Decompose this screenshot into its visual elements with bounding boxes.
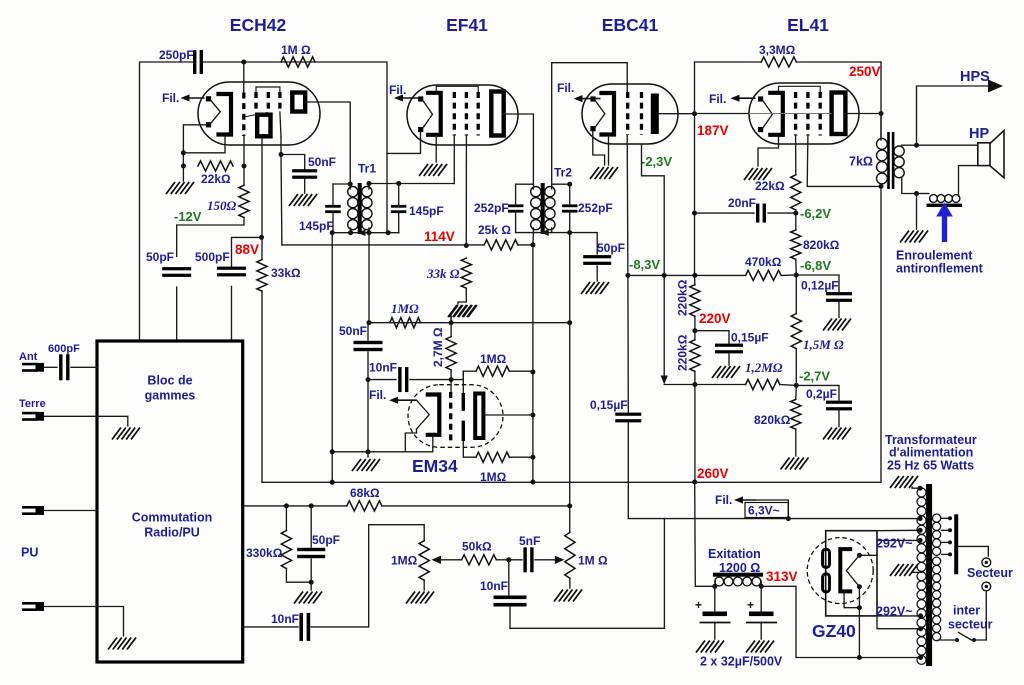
- wire EF41 g1 to Tr1: [453, 136, 455, 184]
- svg-text:50kΩ: 50kΩ: [462, 540, 492, 554]
- resistor 22k EL41: [791, 175, 801, 210]
- resistor 33k EF41: [461, 258, 471, 288]
- grid3 ECH42: [267, 92, 270, 112]
- capacitor 252pF right: [562, 204, 578, 207]
- choke bar: [713, 573, 763, 577]
- wire 313V to GZ40: [761, 586, 920, 657]
- svg-text:187V: 187V: [697, 123, 729, 138]
- transformer OT core: [887, 132, 890, 189]
- svg-text:HP: HP: [969, 126, 989, 142]
- node 220V: [692, 328, 697, 333]
- wire 1M tone gnd: [569, 578, 571, 588]
- antihum coil: [930, 195, 938, 203]
- wire 10nF tone drop: [508, 560, 510, 596]
- wire EBC41 diode out: [642, 144, 665, 378]
- wire 114V rail: [282, 244, 484, 246]
- svg-text:Fil.: Fil.: [162, 91, 179, 105]
- tuning arrow Tr1: [357, 229, 365, 236]
- wire 1M top right: [509, 370, 533, 372]
- wire 88V node: [232, 237, 262, 266]
- wire 50pF AF bot: [310, 559, 312, 590]
- wire Tr2 prim top stub: [532, 184, 534, 189]
- svg-text:0,15µF: 0,15µF: [590, 398, 628, 412]
- grid3 EL41: [819, 92, 822, 136]
- wire fil arrow drop: [756, 500, 788, 519]
- tube EBC41 envelope: [582, 84, 678, 144]
- target EM34: [475, 394, 483, 439]
- wire 33k EF41 gnd: [458, 288, 466, 304]
- wire top rail ECH42: [140, 62, 194, 341]
- node grid1 top: [241, 60, 246, 65]
- node Tr2 bot: [567, 230, 572, 235]
- ground 0.2uF: [823, 428, 832, 440]
- ground EF41: [419, 164, 428, 176]
- wire 470k right: [781, 274, 796, 276]
- node -6.2V: [793, 211, 798, 216]
- transformer mains primary b: [933, 557, 941, 565]
- svg-text:33kΩ: 33kΩ: [271, 266, 301, 280]
- svg-text:1M Ω: 1M Ω: [281, 43, 311, 57]
- wire 20nF right: [768, 212, 796, 214]
- tuning arrow Tr2: [540, 229, 548, 236]
- node tap gnd: [918, 486, 923, 491]
- ground 50pF det: [581, 282, 590, 294]
- transformer mains secondary: [917, 488, 926, 497]
- svg-text:Radio/PU: Radio/PU: [144, 526, 200, 540]
- svg-text:10nF: 10nF: [271, 612, 299, 626]
- wire grid1 drop: [243, 62, 245, 92]
- node AVC b: [449, 320, 454, 325]
- svg-text:1M Ω: 1M Ω: [578, 554, 608, 568]
- tube ECH42 envelope: [198, 82, 320, 145]
- svg-text:Fil.: Fil.: [715, 493, 732, 507]
- ground EL41: [744, 168, 753, 180]
- svg-text:292V~: 292V~: [876, 605, 913, 619]
- wire heater EM34 drop: [405, 429, 416, 452]
- wire GZ40 anode bottom: [844, 591, 859, 607]
- wire heater drop: [663, 519, 665, 629]
- node 470k left: [662, 273, 667, 278]
- wire 50pF to box: [176, 287, 178, 340]
- wire wiper to 50k: [441, 559, 462, 561]
- filament arrow EF41: [401, 97, 418, 99]
- node 260V c: [692, 480, 697, 485]
- svg-text:25k Ω: 25k Ω: [478, 223, 511, 237]
- wire 0.2uF link: [796, 385, 839, 400]
- wire 50nF EM34 down: [367, 352, 369, 380]
- suppressor strap EF41: [436, 86, 478, 92]
- svg-text:-12V: -12V: [174, 209, 202, 224]
- wire chassis rail: [510, 627, 664, 629]
- svg-text:1200 Ω: 1200 Ω: [719, 561, 760, 575]
- svg-text:22kΩ: 22kΩ: [755, 179, 785, 193]
- wire Ant: [44, 366, 57, 368]
- wire Tr1 sec top stub: [368, 184, 370, 190]
- capacitor 50pF AF: [297, 548, 325, 551]
- ground 0.15uF EL41: [712, 366, 721, 378]
- node antihum gnd: [914, 191, 919, 196]
- wire antihum left: [917, 193, 929, 195]
- wire 0.15uF EL41 gnd: [728, 354, 730, 365]
- resistor 33k ECH42: [257, 260, 267, 292]
- ground 2.7M: [448, 305, 457, 317]
- node tap 292a: [918, 538, 923, 543]
- svg-text:0,15µF: 0,15µF: [731, 331, 769, 345]
- terminal Ant: [22, 363, 37, 366]
- wire 33k to 260V rail: [261, 291, 263, 482]
- wire 5nF to tone: [535, 559, 555, 561]
- svg-text:Tr1: Tr1: [358, 162, 376, 176]
- wire 1M volume gnd: [423, 580, 425, 590]
- heater EF41: [418, 96, 423, 101]
- svg-text:Commutation: Commutation: [132, 511, 213, 525]
- transformer Tr2 primary: [531, 187, 541, 197]
- node tap heater: [918, 516, 923, 521]
- wire EL41 top rail: [695, 61, 762, 63]
- node tap 292b: [918, 613, 923, 618]
- ground EM34: [352, 459, 361, 471]
- wire EM34 1M bot left: [463, 441, 476, 457]
- transformer OT secondary: [894, 146, 904, 156]
- resistor 330k: [281, 531, 291, 569]
- wire Tr1 sec bot stub: [368, 228, 370, 233]
- wire 330k bot: [286, 569, 311, 583]
- cathode EM34: [428, 395, 440, 435]
- hexode anode ECH42: [257, 115, 270, 137]
- wire 820k lower gnd: [795, 429, 797, 456]
- terminal PU b: [22, 602, 37, 605]
- screen strap ECH42: [256, 87, 280, 92]
- tube GZ40 frame: [826, 531, 877, 616]
- heater EL41: [758, 96, 763, 101]
- node switch a: [972, 638, 976, 642]
- svg-text:820kΩ: 820kΩ: [803, 238, 840, 252]
- svg-text:Fil.: Fil.: [557, 81, 574, 95]
- wire 20nF link: [695, 212, 755, 214]
- resistor 1M EM34 top: [476, 366, 509, 376]
- ground EBC41: [590, 167, 599, 179]
- capacitor 600pF: [59, 354, 62, 380]
- resistor 220k upper: [690, 285, 700, 317]
- wire EBC41 anode out: [659, 113, 695, 115]
- svg-text:220V: 220V: [699, 311, 731, 326]
- node 50nF tee: [279, 152, 284, 157]
- capacitor 250pF: [193, 50, 196, 74]
- transformer Tr1 primary: [348, 187, 358, 197]
- wire cathode return: [183, 137, 225, 153]
- choke coil: [715, 577, 724, 586]
- terminal PU a: [22, 506, 37, 509]
- wire 10nF row: [368, 379, 396, 381]
- wire tap center: [912, 571, 922, 573]
- svg-text:10nF: 10nF: [369, 361, 397, 375]
- svg-text:Exitation: Exitation: [708, 547, 761, 561]
- wire screen ECH42: [280, 137, 283, 245]
- svg-text:-6,2V: -6,2V: [800, 206, 831, 221]
- svg-text:500pF: 500pF: [195, 250, 230, 264]
- filament arrow EBC41: [581, 98, 601, 100]
- svg-text:Terre: Terre: [19, 398, 46, 410]
- node 20nF left: [692, 211, 697, 216]
- svg-text:gammes: gammes: [145, 389, 196, 403]
- wire sel d: [942, 553, 951, 555]
- svg-text:25 Hz 65 Watts: 25 Hz 65 Watts: [887, 459, 974, 473]
- node switch b: [955, 638, 959, 642]
- svg-text:114V: 114V: [424, 229, 455, 244]
- svg-text:Fil.: Fil.: [389, 83, 406, 97]
- wire triode anode chain: [261, 137, 263, 260]
- arrow AVC down: [661, 376, 668, 385]
- ground ECH42 cathode: [166, 182, 175, 194]
- capacitor 252pF left: [508, 204, 524, 207]
- svg-text:600pF: 600pF: [48, 343, 80, 355]
- wire 820k to -6.8: [795, 259, 798, 275]
- node 145pF right top: [396, 181, 401, 186]
- transformer mains primary a: [933, 514, 941, 522]
- svg-text:HPS: HPS: [960, 69, 990, 85]
- antihum bar: [927, 204, 963, 207]
- wire GZ40 cathode: [858, 608, 860, 658]
- node tap fil winding: [918, 626, 923, 631]
- diode1 EBC41: [626, 92, 629, 135]
- resistor 50k: [462, 555, 497, 565]
- cathode EF41: [428, 93, 441, 135]
- filament GZ40 b: [823, 574, 830, 592]
- svg-text:50pF: 50pF: [146, 250, 174, 264]
- cathode ECH42: [219, 94, 232, 135]
- capacitor 0.15uF EL41: [715, 344, 743, 347]
- grid3 EF41: [477, 92, 480, 136]
- svg-text:+: +: [747, 598, 754, 612]
- wire Tr2 sec bot stub: [551, 228, 553, 233]
- svg-text:252pF: 252pF: [474, 201, 509, 215]
- wire EBC41 cathode gnd: [608, 137, 610, 166]
- svg-text:252pF: 252pF: [578, 201, 613, 215]
- wire 252pF right top: [569, 184, 571, 205]
- svg-text:EM34: EM34: [412, 456, 458, 476]
- resistor 1.2M: [746, 379, 780, 389]
- svg-text:+: +: [695, 598, 702, 612]
- box 6.3V: [745, 503, 788, 518]
- heater EM34: [417, 400, 430, 429]
- ray electrode EM34: [462, 393, 465, 411]
- wire GZ40 cathode link: [858, 587, 860, 608]
- capacitor 145pF left: [325, 205, 341, 208]
- node -2.7V: [794, 383, 799, 388]
- node 22k right: [242, 164, 247, 169]
- node choke right: [759, 584, 764, 589]
- svg-text:-6,8V: -6,8V: [800, 258, 831, 273]
- resistor 1M AVC: [390, 318, 421, 328]
- svg-text:EF41: EF41: [446, 15, 488, 35]
- capacitor 145pF right: [391, 205, 407, 208]
- svg-text:1,5M Ω: 1,5M Ω: [803, 337, 844, 352]
- capacitor 0.12uF: [826, 292, 852, 295]
- wire HPS line: [917, 86, 991, 145]
- wire 145pF left bottom: [332, 212, 334, 233]
- ground 50nF: [289, 194, 298, 206]
- wire OT sec bot: [902, 178, 917, 194]
- wire 50nF EM34 drop: [367, 323, 369, 340]
- wire AVC row: [664, 384, 745, 386]
- capacitor 0.15uF det: [615, 413, 641, 416]
- node sel a: [948, 516, 952, 520]
- speaker HP cone: [990, 131, 1004, 178]
- wire sel b: [942, 529, 951, 531]
- wire cap1 gnd: [714, 623, 716, 640]
- grid EM34: [449, 392, 452, 441]
- wire 1.2M right: [780, 384, 797, 387]
- internal link ECH42: [244, 113, 268, 118]
- resistor 1M EM34 bottom: [476, 452, 509, 462]
- wire 330k drop: [285, 506, 287, 531]
- svg-text:7kΩ: 7kΩ: [849, 155, 873, 169]
- svg-text:220kΩ: 220kΩ: [676, 279, 690, 316]
- svg-text:820kΩ: 820kΩ: [754, 413, 791, 427]
- node 10nF row b: [449, 377, 454, 382]
- tube EF41 envelope: [407, 85, 518, 145]
- filament arrow EL41: [738, 97, 756, 99]
- filament GZ40 a: [823, 549, 830, 567]
- svg-text:20nF: 20nF: [728, 196, 756, 210]
- wire Tr2 to EBC41 grid: [552, 63, 628, 185]
- node 1M top right: [530, 370, 535, 375]
- wire switch to primary: [938, 639, 957, 641]
- svg-text:d'alimentation: d'alimentation: [889, 446, 973, 460]
- svg-text:2 x 32µF/500V: 2 x 32µF/500V: [700, 655, 783, 669]
- node tap frame: [918, 528, 923, 533]
- wire OT prim top: [880, 114, 882, 141]
- wire EM34 ray lead: [462, 371, 464, 393]
- wire 0.15uF EL41 link: [695, 331, 729, 343]
- heater ECH42: [206, 96, 211, 101]
- wire EM34 cath row: [332, 437, 433, 452]
- svg-text:470kΩ: 470kΩ: [745, 255, 782, 269]
- capacitor 32uF b: [749, 612, 774, 617]
- node Tr1 sec top: [367, 181, 372, 186]
- capacitor 32uF a: [703, 612, 728, 617]
- wire 22k to 820k: [795, 210, 797, 230]
- node Tr1 bot d: [386, 230, 391, 235]
- wire triode anode to Tr1: [305, 102, 350, 184]
- resistor 3.3M: [761, 57, 796, 67]
- node Tr1 prim top: [348, 182, 353, 187]
- anode EL41: [832, 93, 846, 135]
- wire 68k row b: [382, 505, 570, 507]
- svg-text:313V: 313V: [766, 569, 798, 584]
- wire Tr2 left cap link: [516, 183, 534, 185]
- node tone: [506, 557, 511, 562]
- wire tap gnd top: [912, 487, 920, 488]
- node HPS tap: [914, 143, 919, 148]
- wire 220k bottom: [694, 371, 696, 482]
- node GZ40 cathode mid: [857, 605, 862, 610]
- svg-text:3,3MΩ: 3,3MΩ: [759, 43, 796, 57]
- svg-text:ECH42: ECH42: [230, 15, 287, 35]
- cathode EL41: [770, 93, 783, 135]
- svg-text:1,2MΩ: 1,2MΩ: [745, 360, 783, 375]
- wire 50k to node: [496, 559, 509, 561]
- ground 33k EF41: [449, 305, 458, 317]
- resistor 820k upper: [791, 230, 801, 259]
- node 220k top: [692, 273, 697, 278]
- node GZ40 anode b: [857, 584, 862, 589]
- wire 50pF det gnd: [596, 266, 598, 281]
- wire 0.12uF link: [796, 275, 839, 292]
- grid1 EL41: [794, 92, 797, 136]
- wire EF41 anode: [503, 114, 533, 184]
- svg-text:145pF: 145pF: [299, 219, 334, 233]
- wire EL41 top rail b: [796, 61, 881, 63]
- wire 260V to choke: [695, 482, 715, 586]
- svg-text:330kΩ: 330kΩ: [246, 546, 283, 560]
- node 1M bot right: [530, 455, 535, 460]
- wire grid1 down: [243, 135, 245, 185]
- resistor 25k: [484, 240, 518, 250]
- wire AVC top row: [369, 322, 570, 324]
- terminal secteur a: [982, 558, 991, 567]
- wire 1M top left: [463, 370, 476, 372]
- node choke left: [712, 584, 717, 589]
- ground 0.12uF: [823, 319, 832, 331]
- wire -8.3V row: [628, 274, 746, 276]
- heater EBC41: [590, 96, 595, 101]
- node GZ40 anode a: [857, 553, 862, 558]
- anode GZ40: [840, 549, 850, 591]
- wire Tr1 bottom bus: [332, 232, 399, 234]
- wire antihum right: [959, 166, 978, 197]
- filament arrow EM34: [396, 399, 417, 401]
- link GZ40 v: [846, 555, 859, 586]
- wire 10nF row b: [410, 371, 463, 379]
- wire choke right ends: [760, 581, 762, 586]
- ground cap1: [696, 641, 705, 653]
- svg-text:250pF: 250pF: [159, 48, 194, 62]
- svg-text:EL41: EL41: [787, 15, 829, 35]
- switch lever: [959, 633, 972, 641]
- wire 10nF AF row: [243, 626, 298, 628]
- wire Tr1 top left: [333, 183, 350, 185]
- capacitor 50pF ECH42: [162, 267, 191, 270]
- wire EF41 heater drop: [387, 132, 421, 153]
- anode EBC41: [651, 94, 659, 135]
- wire EM34 target out: [483, 414, 533, 416]
- wire 220k mid: [694, 316, 696, 340]
- wire 1M bot right: [509, 456, 533, 458]
- wire Tr2 bot to 50pF: [570, 233, 598, 254]
- svg-text:GZ40: GZ40: [812, 621, 856, 641]
- node Tr2 sec top: [567, 182, 572, 187]
- grid4 ECH42: [278, 92, 281, 112]
- wire EM34 grid lead: [450, 380, 452, 393]
- capacitor 50nF EM34: [354, 341, 383, 344]
- node screen B+: [879, 184, 884, 189]
- node 187V: [692, 111, 697, 116]
- wire gnd to 2.7M: [450, 316, 452, 323]
- grid2 ECH42: [254, 92, 257, 112]
- terminal Terre: [22, 412, 37, 415]
- ground 1M tone: [554, 590, 563, 602]
- node tap fil b: [918, 655, 923, 660]
- svg-text:PU: PU: [21, 546, 38, 560]
- node Tr1 bot c: [367, 230, 372, 235]
- capacitor 10nF tone: [494, 596, 527, 600]
- wire 1.5M chain: [795, 275, 797, 314]
- wire sel c: [942, 541, 951, 543]
- wire Terre: [44, 416, 128, 426]
- transformer mains core: [926, 484, 932, 666]
- svg-text:Fil.: Fil.: [369, 388, 386, 402]
